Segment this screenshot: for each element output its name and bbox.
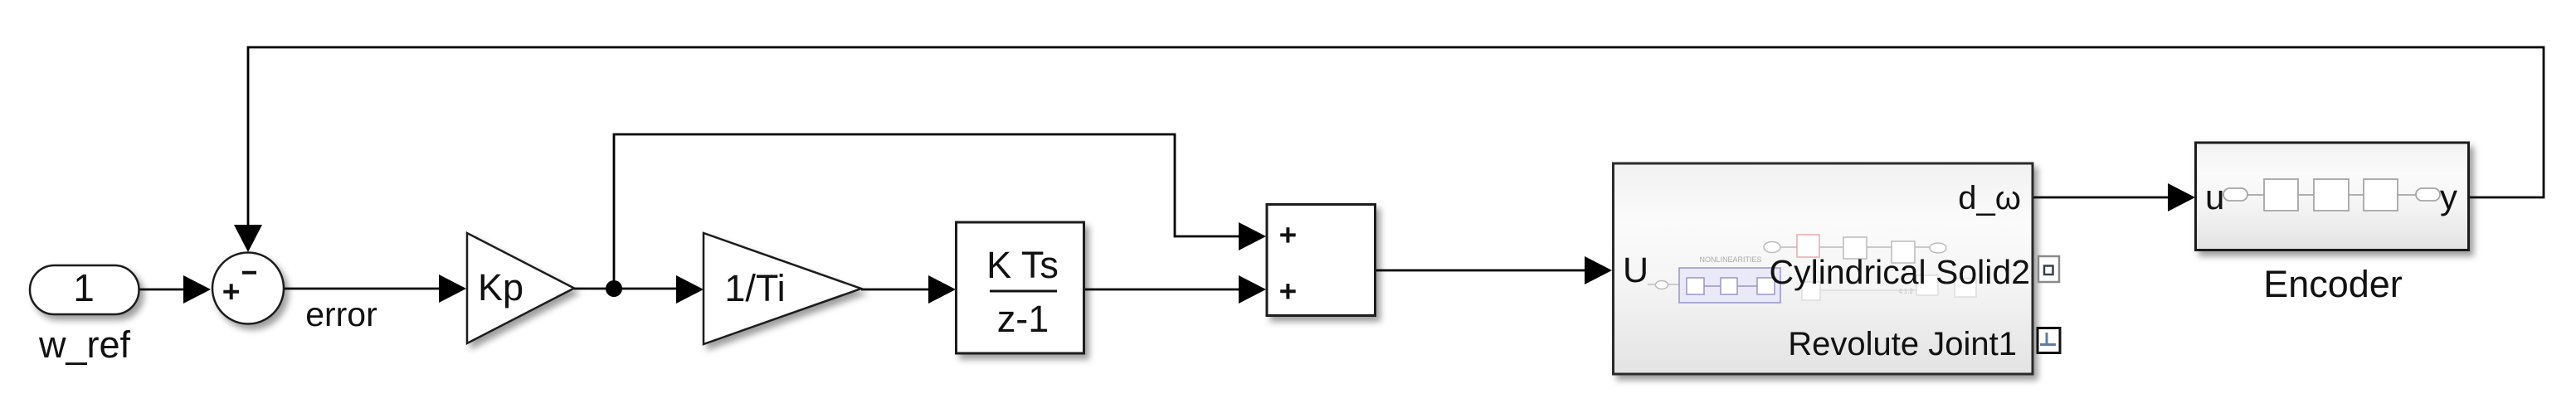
svg-text:Cylindrical Solid2: Cylindrical Solid2 (1770, 253, 2030, 291)
svg-text:Encoder: Encoder (2263, 263, 2403, 305)
svg-text:K Ts: K Ts (986, 244, 1059, 286)
svg-text:1: 1 (73, 266, 95, 309)
svg-text:d_ω: d_ω (1958, 180, 2021, 216)
svg-text:U: U (1623, 250, 1648, 290)
svg-text:NONLINEARITIES: NONLINEARITIES (1699, 255, 1761, 264)
svg-text:y: y (2440, 177, 2457, 216)
svg-text:z-1: z-1 (997, 298, 1049, 340)
svg-text:1/Ti: 1/Ti (724, 267, 785, 309)
svg-text:Revolute Joint1: Revolute Joint1 (1788, 326, 2017, 362)
svg-text:u: u (2205, 177, 2224, 216)
svg-text:Kp: Kp (478, 266, 523, 309)
svg-text:error: error (305, 295, 377, 333)
svg-text:w_ref: w_ref (38, 323, 131, 366)
